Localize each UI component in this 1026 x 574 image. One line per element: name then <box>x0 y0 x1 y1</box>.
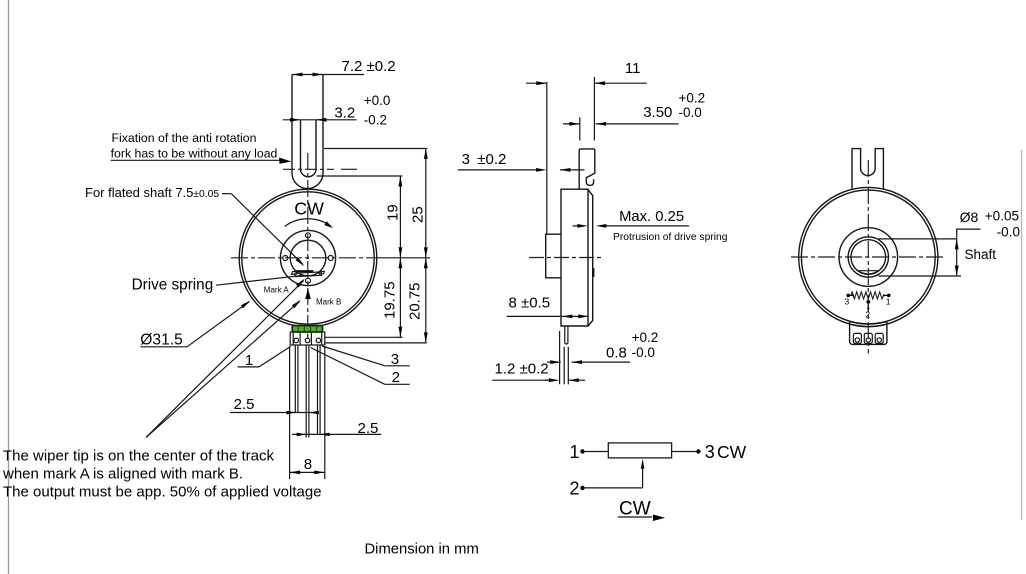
rear vertical centerline <box>867 160 869 354</box>
ext line 3.5 left <box>579 117 581 140</box>
housing pin hole 2 <box>305 338 310 343</box>
dia8 bottom tangent line <box>879 275 962 277</box>
dim 3.5 line left <box>563 123 580 125</box>
arrow 19 bottom <box>399 247 403 257</box>
svg-text:+0.05: +0.05 <box>985 208 1019 223</box>
dim 11 arrow left <box>536 81 547 85</box>
housing divider 2 <box>299 332 301 345</box>
dim 1.2 arrow left-part <box>549 378 560 382</box>
centerline solid extension to dims <box>378 257 431 259</box>
label 2 underline <box>385 383 410 385</box>
potentiometer resistive element R <box>608 443 671 458</box>
dia8 underline <box>957 229 981 239</box>
green connector strip <box>292 326 322 332</box>
rear center point <box>867 256 869 258</box>
dim 1.2 line right <box>568 379 585 381</box>
page border right <box>1021 150 1023 520</box>
dim 11 line right <box>594 82 646 84</box>
svg-text:8 ±0.5: 8 ±0.5 <box>509 294 551 311</box>
wire terminal1 to R <box>585 451 609 453</box>
side boss <box>546 234 561 278</box>
svg-text:Drive spring: Drive spring <box>132 277 214 294</box>
rear cell hole 3 <box>877 338 881 342</box>
svg-text:11: 11 <box>625 60 641 77</box>
dia31.5 leader <box>187 302 249 347</box>
ext line 11 left <box>546 82 548 234</box>
wiper arrow up <box>867 304 869 309</box>
front vertical centerline <box>307 153 309 330</box>
svg-text:2.5: 2.5 <box>234 396 255 413</box>
svg-text:when mark A is aligned with ma: when mark A is aligned with mark B. <box>2 466 243 483</box>
dim 3pm02 arrows (into side view) <box>536 168 547 172</box>
svg-text:Fixation of the anti rotation: Fixation of the anti rotation <box>112 131 257 145</box>
svg-text:3: 3 <box>845 297 850 307</box>
8pm05 line mid <box>562 315 589 317</box>
fork crosshair horizontal <box>283 168 334 170</box>
8pm05 underline <box>507 315 561 317</box>
arrow 19.75 top <box>399 258 403 269</box>
flated shaft leader arrow <box>296 258 305 267</box>
dim 7.2 arrow right <box>313 73 324 77</box>
svg-text:-0.0: -0.0 <box>997 225 1020 240</box>
front horizontal centerline <box>231 257 378 259</box>
dim 2.5a arrow left <box>287 411 297 415</box>
rear fork <box>852 149 883 190</box>
housing divider 3 <box>310 332 312 345</box>
svg-text:-0.0: -0.0 <box>632 345 655 360</box>
wiper arrow <box>641 459 645 469</box>
terminal 1 node dot <box>580 449 584 453</box>
shaft arrow up <box>955 239 959 250</box>
front hub circle <box>280 230 335 285</box>
svg-text:The wiper tip is on the center: The wiper tip is on the center of the tr… <box>3 448 274 465</box>
green strip dividers <box>298 326 316 332</box>
wiper dot <box>866 300 870 304</box>
ext line for 20.75 bottom <box>325 342 426 344</box>
svg-text:Dimension in mm: Dimension in mm <box>365 541 479 557</box>
max arrow left-pointing <box>596 224 607 228</box>
3pm02 right line <box>560 169 585 171</box>
arrow 19 top <box>399 176 403 187</box>
front view body inner ring <box>242 192 374 324</box>
dim 0.8 left line <box>547 361 561 363</box>
fork crosshair horiz right dash <box>341 168 357 170</box>
housing divider 1 <box>292 332 294 345</box>
svg-text:Ø8: Ø8 <box>960 209 979 225</box>
svg-text:3: 3 <box>462 151 470 168</box>
drive spring bar <box>295 272 322 277</box>
shaft arrow line <box>956 239 958 276</box>
dim 3.2 arrow right <box>316 118 327 122</box>
side fork <box>579 149 595 189</box>
front shaft hole <box>290 240 326 276</box>
ext line for 19.75 bottom <box>324 336 402 338</box>
flated shaft leader <box>231 194 302 264</box>
svg-text:20.75: 20.75 <box>406 282 423 320</box>
CW direction arrow <box>653 515 665 522</box>
dim 8 arrow left <box>290 471 301 475</box>
dim 2.5b arrow right <box>320 433 330 437</box>
dim 8 line <box>290 471 325 473</box>
page border left <box>8 0 10 574</box>
svg-text:Shaft: Shaft <box>965 247 997 262</box>
dim 7.2 line <box>292 74 364 76</box>
label 3 leader <box>322 346 385 366</box>
arrow 25 bottom <box>424 247 428 257</box>
terminal 2 node dot <box>580 486 584 490</box>
dim 0.8 arrow right-part <box>572 360 583 364</box>
rear hub circle <box>839 228 898 287</box>
svg-text:19.75: 19.75 <box>382 281 399 319</box>
svg-text:3.2: 3.2 <box>334 105 355 122</box>
note leader B arrow <box>296 279 305 288</box>
fork slot left <box>300 120 302 169</box>
svg-text:Max. 0.25: Max. 0.25 <box>619 209 684 225</box>
dim 3.5 arrow left <box>569 122 580 126</box>
pin 1 wire <box>295 345 298 413</box>
arrow 19.75 bottom <box>399 327 403 338</box>
pin ext line left <box>289 346 291 479</box>
drive spring flat chord <box>296 270 314 272</box>
wiper wire horizontal <box>585 487 643 489</box>
svg-text:8: 8 <box>304 456 312 473</box>
side pin stub <box>565 326 568 344</box>
front view body outer circle <box>239 189 377 327</box>
dim 0.8 arrow left-part <box>550 360 561 364</box>
rear inner ring <box>801 190 935 324</box>
dim 3.2 line <box>283 119 357 121</box>
side body outline <box>561 189 588 326</box>
note leader B (to wiper tip) <box>146 281 304 438</box>
arrow 25 top <box>424 149 428 160</box>
side centerline <box>529 257 601 259</box>
hole top <box>306 233 311 238</box>
shaft arrow down <box>955 266 959 277</box>
svg-text:-0.0: -0.0 <box>679 105 702 120</box>
drive spring left tab <box>291 272 297 275</box>
dim 11 line left <box>526 82 547 84</box>
housing divider 4 <box>321 332 323 345</box>
terminal 3 node dot <box>696 449 700 453</box>
max 0.25 underline <box>601 225 689 227</box>
dim 3.5 line right <box>596 123 679 125</box>
hole right <box>328 256 333 261</box>
rear cell 3 <box>875 333 883 343</box>
dim 25/20.75 vertical line <box>425 149 427 343</box>
svg-text:7.2 ±0.2: 7.2 ±0.2 <box>342 58 396 75</box>
dim 2.5b arrow left <box>297 433 307 437</box>
side cover lid <box>588 190 593 326</box>
housing pin hole 1 <box>294 338 299 343</box>
dim 1.2 underline <box>492 379 556 381</box>
svg-text:3: 3 <box>705 442 715 462</box>
svg-text:19: 19 <box>385 204 402 221</box>
anti-rotation fork front: outer left <box>291 75 293 174</box>
svg-text:-0.2: -0.2 <box>364 113 387 128</box>
resistor end dot left <box>846 294 850 298</box>
dim 3.2 arrow left <box>290 118 301 122</box>
housing pin hole 3 <box>316 338 321 343</box>
8pm05 arrow left <box>562 315 573 319</box>
svg-text:+0.2: +0.2 <box>679 91 706 106</box>
fork outer bottom arc <box>292 173 323 189</box>
resistor end arrow right <box>883 294 888 296</box>
svg-text:±0.2: ±0.2 <box>477 151 506 168</box>
dim 11 arrow right <box>594 81 605 85</box>
drive spring right tab <box>319 271 324 274</box>
CW underline <box>618 516 652 518</box>
drive spring leader <box>216 275 304 285</box>
spring protrusion bump <box>592 268 594 277</box>
rear housing top arc (circle continues) <box>849 324 887 327</box>
rear cell hole 2 <box>866 338 870 342</box>
fork slot U bottom <box>301 169 317 177</box>
svg-text:0.8: 0.8 <box>606 344 627 361</box>
pin 2 wire <box>306 345 309 438</box>
center point <box>307 257 309 259</box>
svg-text:3.50: 3.50 <box>643 104 672 121</box>
ext line for 19 top <box>317 175 403 177</box>
wiper wire vertical <box>642 466 644 488</box>
ext line for 25 top <box>324 148 427 150</box>
dim 7.2 arrow left <box>292 73 303 77</box>
fixation leader underline <box>111 159 281 161</box>
max arrow left line <box>573 225 579 227</box>
note leader A (to mark) <box>146 301 300 437</box>
svg-text:The output must be app. 50% of: The output must be app. 50% of applied v… <box>3 484 322 501</box>
svg-text:+0.2: +0.2 <box>632 330 659 345</box>
pin ext line right <box>324 346 326 479</box>
dim 0.8 line right <box>572 361 630 363</box>
housing center tick <box>307 334 309 338</box>
wiper arrow shaft <box>867 304 869 311</box>
ext line 11 right <box>593 77 595 141</box>
rear cell hole 1 <box>855 338 859 342</box>
rear shaft inner <box>851 240 886 275</box>
rear housing inner ring arc <box>850 321 887 324</box>
svg-text:CW: CW <box>294 199 324 219</box>
note leader A arrow <box>292 300 301 308</box>
svg-text:fork has to be without any loa: fork has to be without any load <box>111 147 278 161</box>
svg-text:2: 2 <box>865 309 870 319</box>
3pm02 underline <box>458 169 537 171</box>
dim 8 arrow right <box>314 471 325 475</box>
arrow 20.75 top <box>424 258 428 269</box>
hole bottom (mark A) <box>306 278 311 283</box>
label 1 leader <box>259 347 291 367</box>
label 3 underline <box>385 365 410 367</box>
svg-text:1: 1 <box>570 442 580 462</box>
label 1 underline <box>238 366 260 368</box>
svg-text:Mark A: Mark A <box>264 285 290 294</box>
rear cell 1 <box>853 333 861 343</box>
rear shaft flat <box>858 271 878 274</box>
svg-text:2: 2 <box>570 478 580 498</box>
CW rotation arc <box>285 219 331 227</box>
dia31.5 leader arrow <box>241 301 251 309</box>
dim 2.5a line <box>230 412 319 414</box>
dim 2.5b line <box>292 433 381 435</box>
svg-text:1: 1 <box>886 296 891 306</box>
svg-text:2: 2 <box>392 369 400 386</box>
dim 19/19.75 vertical line <box>399 176 401 337</box>
CW arc arrowhead <box>324 221 333 228</box>
svg-text:1: 1 <box>245 352 253 369</box>
fixation leader arrow <box>279 158 292 164</box>
dia31.5 underline <box>140 346 187 348</box>
max arrow right-pointing <box>577 224 588 228</box>
side ext line for 1.2 <box>559 331 561 384</box>
rear cell 2 <box>864 333 872 343</box>
flated shaft leader dash <box>222 193 231 195</box>
wiper mark arrow (thick, on centerline) <box>305 288 311 299</box>
fork slot right <box>315 120 317 169</box>
3pm02 right arrow <box>560 168 571 172</box>
rear shaft outer <box>848 237 888 277</box>
hole left <box>283 256 288 261</box>
dim 1.2 line left-part <box>545 379 556 381</box>
dim 2.5a arrow right <box>309 411 319 415</box>
svg-text:+0.0: +0.0 <box>364 93 391 108</box>
wire R to terminal3 <box>672 451 697 453</box>
side pin lower lines <box>564 347 568 385</box>
pin 3 wire <box>318 345 321 434</box>
svg-text:25: 25 <box>410 206 427 223</box>
pin housing <box>290 332 325 345</box>
svg-text:2.5: 2.5 <box>358 420 379 437</box>
rear connector housing <box>850 321 887 344</box>
fork outer right <box>322 75 324 174</box>
dim 1.2 arrow right-part <box>568 378 579 382</box>
resistor end arrow left <box>849 294 854 296</box>
svg-text:Mark B: Mark B <box>316 298 341 307</box>
rear resistor track symbol <box>848 292 889 299</box>
rear outer circle <box>799 187 938 326</box>
arrow 20.75 bottom <box>424 332 428 343</box>
resistor end dot right <box>887 294 891 298</box>
rear horizontal centerline <box>791 256 946 258</box>
svg-text:Ø31.5: Ø31.5 <box>140 331 183 348</box>
dim 3.5 arrow right <box>596 122 607 126</box>
svg-text:1.2 ±0.2: 1.2 ±0.2 <box>495 361 549 378</box>
svg-text:CW: CW <box>717 442 747 462</box>
dia8 top tangent line <box>879 238 957 240</box>
8pm05 arrow right <box>578 315 589 319</box>
label 2 leader <box>311 348 385 385</box>
svg-text:Protrusion of drive spring: Protrusion of drive spring <box>613 232 728 243</box>
